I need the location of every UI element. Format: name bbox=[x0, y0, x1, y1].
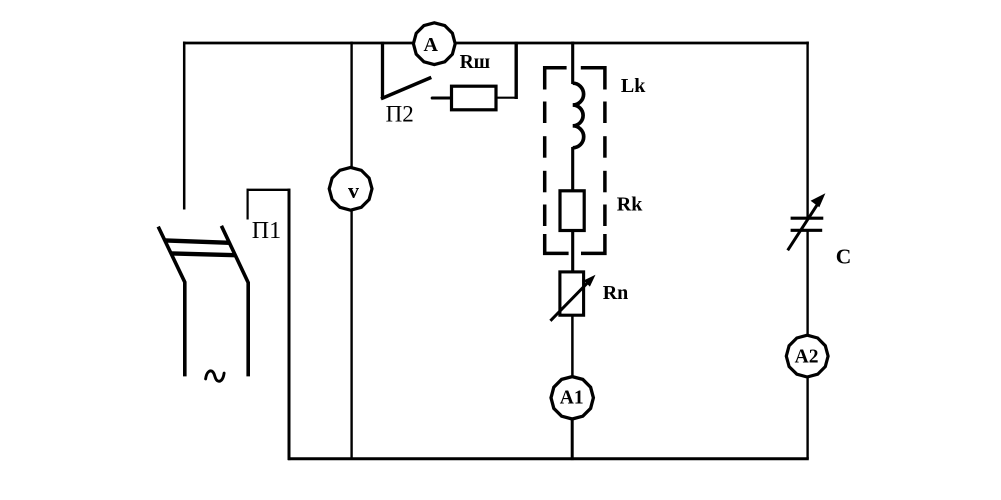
svg-text:Rn: Rn bbox=[603, 282, 629, 304]
wire: top bus bbox=[183, 42, 809, 45]
svg-text:A1: A1 bbox=[560, 387, 584, 408]
arrow of variable resistor Rn bbox=[550, 281, 589, 321]
wire: П1 horizontal link bbox=[247, 189, 291, 191]
wire: Rk to Rn bbox=[571, 230, 574, 273]
wire: Rш branch up to top bus bbox=[515, 42, 518, 99]
switch П2 pivot wire bbox=[381, 42, 384, 100]
wire: П1 return drop to bottom bus bbox=[288, 189, 291, 461]
resistor Rш left lead bbox=[432, 96, 452, 99]
switch П1 crossbar 2 bbox=[171, 253, 235, 255]
dashed enclosure around Lk and Rk bbox=[545, 68, 605, 254]
wire: left drop from top bus to switch П1 bbox=[183, 42, 186, 210]
svg-text:v: v bbox=[348, 178, 359, 203]
svg-text:Rш: Rш bbox=[460, 52, 491, 73]
AC source symbol ~ bbox=[206, 371, 225, 381]
wire: reactor branch from top bus to coil bbox=[571, 42, 574, 85]
switch П1 left pole (blade rail + lead) bbox=[158, 227, 185, 377]
switch П2 blade (open) bbox=[381, 77, 431, 98]
switch П1 crossbar 1 bbox=[165, 240, 230, 242]
ammeter A bbox=[413, 23, 455, 65]
inductor Lk (coil) bbox=[573, 83, 584, 148]
arrow of variable capacitor C bbox=[788, 204, 818, 250]
wire: П1 fixed contact stub bbox=[247, 189, 249, 220]
capacitor C bottom plate bbox=[791, 229, 823, 232]
svg-text:C: C bbox=[836, 244, 852, 268]
voltmeter V bbox=[329, 167, 372, 210]
resistor Rn body bbox=[560, 272, 584, 315]
svg-text:П2: П2 bbox=[386, 101, 414, 126]
resistor Rш body bbox=[452, 86, 497, 110]
wire: Rn to ammeter A1 bbox=[571, 315, 574, 378]
wire: coil to Rk bbox=[571, 147, 574, 192]
svg-text:A: A bbox=[423, 34, 438, 56]
resistor Rш right lead bbox=[496, 97, 518, 99]
wire: right branch, top bus down to capacitor C bbox=[806, 42, 808, 219]
ammeter A2 bbox=[786, 335, 828, 377]
wire: voltmeter branch (top bus to bottom bus) bbox=[350, 42, 352, 459]
wire: bottom bus bbox=[288, 457, 809, 460]
resistor Rk body bbox=[560, 191, 584, 231]
ammeter A1 bbox=[551, 377, 593, 419]
switch П1 right pole (blade rail + lead) bbox=[221, 226, 248, 377]
svg-text:Lk: Lk bbox=[621, 75, 646, 97]
svg-text:Rk: Rk bbox=[617, 194, 643, 216]
wire: A1 to bottom bus bbox=[571, 417, 574, 460]
svg-text:П1: П1 bbox=[252, 218, 281, 244]
capacitor C top plate bbox=[791, 217, 824, 220]
wire: right branch, capacitor C down to bottom bus bbox=[806, 230, 808, 458]
svg-text:A2: A2 bbox=[795, 347, 819, 368]
